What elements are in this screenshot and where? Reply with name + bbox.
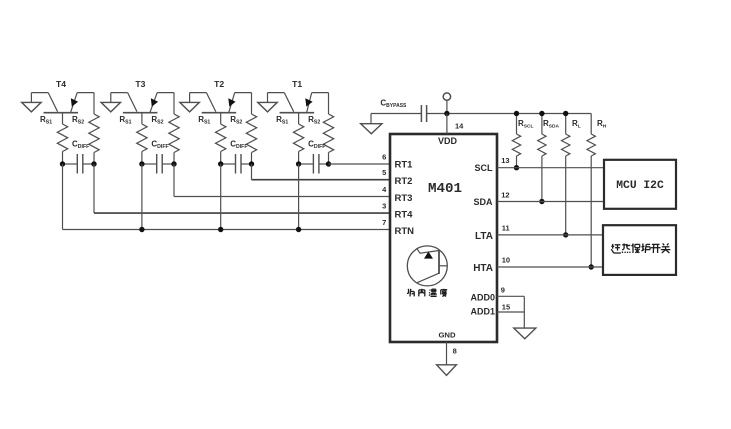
wire T4 collector to ground [31,93,48,103]
label RS1 (T2) [198,115,210,126]
node T2 right [249,161,254,166]
resistor RS1 (T3) [137,124,147,164]
pin number 8 [453,347,457,356]
transistor T4 [44,93,79,113]
svg-text:M401: M401 [428,181,462,197]
label RS1 (T3) [119,115,131,126]
transistor T1 label [292,79,302,89]
label on-chip temperature text [407,289,447,297]
wire SCL (pin 13) [497,167,604,169]
node RTN/T3 junction [139,227,144,232]
node RTN/T2 junction [218,227,223,232]
resistor RS2 (T4) [89,114,99,164]
resistor RS2 (T3) [169,114,179,164]
wire VDD pin 14 stub [446,114,448,135]
label RS2 (T4) [72,115,84,126]
svg-text:15: 15 [502,303,510,312]
wire RT2 net (T2 to pin 5) [252,164,391,180]
wire RT4 net (T4 to pin 3) [94,164,390,213]
wire RT3 net (T3 to pin 4) [174,164,390,197]
ground T3 collector [101,102,120,112]
wire T2 emitter top [235,93,252,114]
svg-text:RTN: RTN [395,226,415,237]
node T3 left [139,161,144,166]
resistor RL [562,114,570,235]
wire VDD rail [371,113,591,115]
wire T1 base [298,113,300,124]
wire ADD to ground [523,296,525,328]
resistor RH [587,114,595,268]
ground (ADD pins) [514,328,536,339]
svg-text:6: 6 [382,153,386,162]
label RS2 (T1) [308,115,320,126]
ground (bypass) [361,114,382,134]
ground T1 collector [258,102,277,112]
capacitor CDIFF (T4) [63,154,95,174]
label CDIFF (T2) [230,140,247,151]
pin number 10 [502,256,510,265]
label RH [597,119,607,130]
resistor RS1 (T2) [216,124,226,164]
svg-text:VDD: VDD [438,136,458,146]
wire RTN bus (pin 7) [63,164,391,230]
label RS1 (T4) [40,115,52,126]
resistor RSDA [538,114,546,202]
svg-text:RT3: RT3 [395,193,413,204]
svg-text:T1: T1 [292,79,302,89]
svg-text:12: 12 [501,190,509,199]
pin number 15 [502,303,510,312]
transistor T4 label [56,79,66,89]
node RSCL bottom junction [514,165,519,170]
svg-text:5: 5 [382,168,386,177]
ground (GND pin) [437,365,457,376]
svg-text:RT1: RT1 [395,160,414,171]
svg-text:3: 3 [382,202,386,211]
label CBYPASS [380,98,407,109]
node rail/RSDA junction [539,111,544,116]
node RH bottom junction [589,264,594,269]
wire HTA (pin 10) [497,266,603,268]
node RSDA bottom junction [539,199,544,204]
transistor T2 [202,93,237,113]
transistor T1 [280,93,315,113]
svg-text:T3: T3 [135,79,145,89]
svg-text:ADD0: ADD0 [470,292,495,302]
node rail/RL junction [563,111,568,116]
resistor RS2 (T2) [246,114,256,164]
overheat protection switch box [603,225,676,275]
svg-text:8: 8 [453,347,457,356]
resistor RSCL [512,114,520,168]
label RSCL [518,119,533,130]
wire T3 collector to ground [111,93,128,103]
MCU I2C box [604,160,676,209]
svg-text:7: 7 [382,218,386,227]
svg-text:RT2: RT2 [395,176,413,187]
label CDIFF (T3) [151,140,168,151]
node T2 left [218,161,223,166]
wire SDA (pin 12) [497,201,604,203]
wire T2 collector to ground [190,93,207,103]
svg-text:MCU I2C: MCU I2C [616,180,664,192]
VDD supply terminal [443,93,450,114]
wire T3 emitter top [157,93,174,114]
wire ADD0 (pin 9) [497,295,524,297]
wire T3 base [141,113,143,124]
node RL bottom junction [563,232,568,237]
wire T1 collector to ground [268,93,285,103]
node VDD junction [444,111,449,116]
ground T2 collector [180,102,199,112]
wire LTA (pin 11) [497,234,603,236]
ground T4 collector [22,102,41,112]
wire T4 base [62,113,64,124]
svg-text:11: 11 [502,224,510,233]
svg-text:14: 14 [455,122,464,131]
svg-text:RT4: RT4 [395,209,414,220]
svg-text:SDA: SDA [473,197,493,207]
pin number 4 [382,185,387,194]
node T4 left [60,161,65,166]
pin number 6 [382,153,386,162]
node RTN/T1 junction [296,227,301,232]
pin number 7 [382,218,386,227]
node T1 right [326,161,331,166]
wire ADD1 (pin 15) [497,311,524,313]
transistor T3 label [135,79,145,89]
svg-text:T4: T4 [56,79,66,89]
label CDIFF (T4) [72,140,89,151]
capacitor CDIFF (T1) [299,154,329,174]
svg-text:GND: GND [438,331,456,340]
label RS1 (T1) [276,115,288,126]
capacitor CBYPASS [421,105,426,122]
resistor RS1 (T1) [293,124,303,164]
wire T1 emitter top [312,93,329,114]
pin number 11 [502,224,510,233]
svg-text:SCL: SCL [475,163,494,173]
pin number 14 [455,122,464,131]
svg-text:LTA: LTA [475,231,493,242]
svg-text:T2: T2 [214,79,224,89]
label RSDA [543,119,559,130]
wire T2 base [220,113,222,124]
on-chip temperature sensor transistor [407,246,447,286]
svg-text:ADD1: ADD1 [470,307,495,317]
transistor T2 label [214,79,224,89]
pin number 9 [501,286,505,295]
svg-text:9: 9 [501,286,505,295]
svg-text:10: 10 [502,256,510,265]
pin number 12 [501,190,509,199]
wire T4 emitter top [77,93,94,114]
node rail/RSCL junction [514,111,519,116]
capacitor CDIFF (T2) [221,154,252,174]
node T1 left [296,161,301,166]
capacitor CDIFF (T3) [142,154,174,174]
resistor RS2 (T1) [323,114,333,164]
label RS2 (T2) [230,115,242,126]
label overheat protection switch text [611,243,670,253]
pin number 13 [501,156,509,165]
label RL [572,119,581,130]
node T3 right [171,161,176,166]
label CDIFF (T1) [308,140,325,151]
pin number 3 [382,202,386,211]
label RS2 (T3) [151,115,163,126]
pin number 5 [382,168,386,177]
transistor T3 [123,93,158,113]
svg-text:13: 13 [501,156,509,165]
wire RT1 net (T1 to pin 6) [329,163,391,165]
svg-text:HTA: HTA [473,263,493,274]
wire GND pin 8 stub [446,342,448,365]
resistor RS1 (T4) [57,124,67,164]
node T4 right [91,161,96,166]
op-amp U1 M401 IC body [390,134,497,342]
